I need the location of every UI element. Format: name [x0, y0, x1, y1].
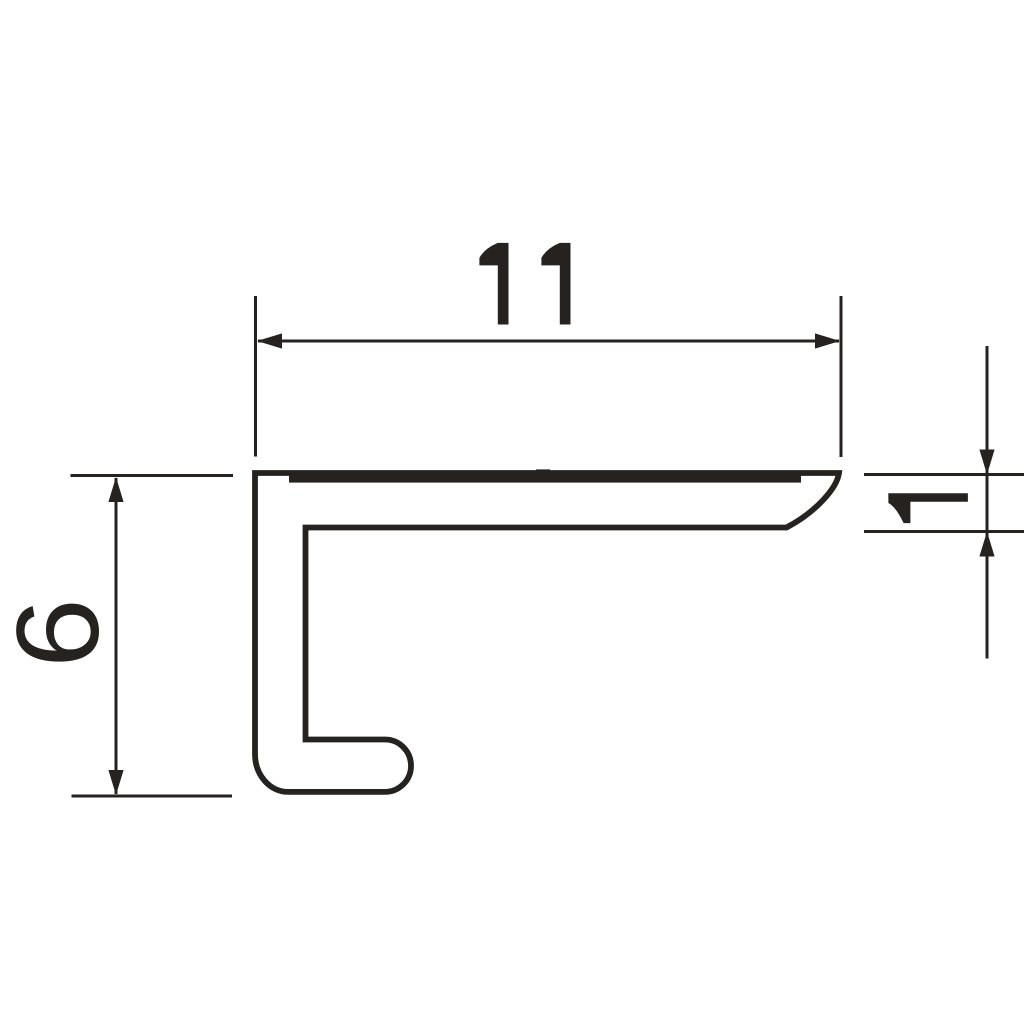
- dim-6 extension line bottom: [72, 795, 233, 798]
- dim-11 extension line right: [840, 296, 843, 457]
- dim-6 arrowhead top: [108, 477, 123, 502]
- dim-1 value label: [888, 493, 968, 523]
- dim-1 dimension line: [986, 346, 989, 659]
- dim-1 arrowhead up: [979, 532, 994, 557]
- dim-11 arrowhead right: [815, 333, 840, 348]
- dim-11 dimension line: [258, 340, 839, 343]
- profile outline: [255, 473, 839, 792]
- dim-6 extension line top: [71, 474, 234, 477]
- dim-11 value label digit 1b: [541, 243, 570, 325]
- dim-6 dimension line: [115, 478, 118, 794]
- svg-text:6: 6: [0, 598, 123, 668]
- dim-1 extension line top: [864, 473, 1024, 476]
- dim-1 arrowhead down: [979, 450, 994, 475]
- dim-1 extension line bottom: [864, 530, 1024, 533]
- profile top center tick: [536, 469, 550, 472]
- dim-11 value label digit 1a: [479, 243, 508, 325]
- dim-11 arrowhead left: [257, 333, 282, 348]
- dim-11 extension line left: [254, 296, 257, 457]
- profile top thick band: [289, 471, 801, 482]
- dim-6 arrowhead bottom: [108, 770, 123, 795]
